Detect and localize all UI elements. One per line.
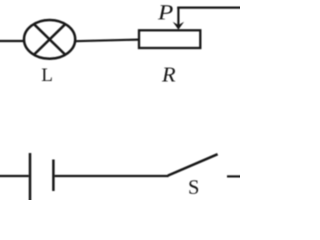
label P [158, 5, 173, 19]
wire from left edge to battery [0, 175, 29, 177]
wire from lamp to rheostat [75, 40, 138, 42]
wire from left edge to lamp [0, 40, 25, 42]
lamp L (circle with X) [24, 20, 75, 59]
label L [42, 69, 52, 81]
switch right contact wire to edge [227, 175, 242, 177]
rheostat R body [139, 30, 200, 48]
battery positive plate (long) [29, 153, 32, 201]
rheostat wiper arrow [173, 8, 184, 30]
label S [189, 180, 198, 194]
wire from wiper up and right to edge [177, 6, 242, 8]
label R [162, 68, 175, 82]
battery negative plate (short) [52, 160, 55, 192]
wire from battery to switch pivot [55, 175, 169, 177]
switch S blade (open) [168, 154, 218, 175]
